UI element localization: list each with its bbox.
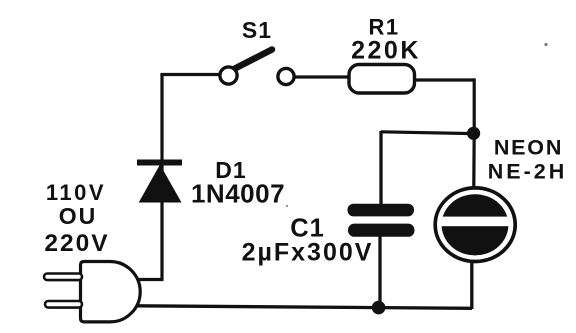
wire: top horizontal to switch S1 left contact: [160, 73, 220, 76]
wire: right vertical from resistor corner down to neon top: [472, 78, 476, 187]
svg-text:2µFx300V: 2µFx300V: [242, 239, 374, 267]
wire: switch right contact to resistor R1: [294, 75, 350, 78]
svg-text:NEON: NEON: [494, 136, 563, 160]
svg-text:1N4007: 1N4007: [191, 179, 285, 209]
wire: capacitor C1 top lead: [379, 131, 382, 206]
wire: bottom horizontal from plug to neon lead: [136, 306, 472, 309]
neon lamp NE-2H outer envelope: [435, 188, 515, 262]
neon lamp electrodes (filled with gap): [436, 194, 516, 255]
diode D1 cathode bar: [137, 160, 182, 166]
svg-text:NE-2H: NE-2H: [488, 160, 568, 184]
wire: capacitor C1 bottom lead: [378, 235, 381, 308]
svg-text:OU: OU: [59, 203, 98, 229]
svg-text:S1: S1: [242, 17, 272, 43]
capacitor C1 bottom plate: [348, 224, 415, 237]
switch S1 lever: [232, 50, 272, 71]
switch S1 left contact: [220, 67, 237, 84]
plug top prong: [44, 274, 82, 281]
capacitor C1 top plate: [348, 204, 415, 217]
svg-text:220K: 220K: [351, 37, 421, 65]
svg-text:110V: 110V: [46, 180, 106, 205]
node: junction dot at resistor/capacitor/neon: [467, 127, 480, 140]
svg-text:220V: 220V: [44, 230, 109, 257]
wire: mid horizontal from capacitor to junction: [381, 132, 474, 134]
node: junction dot at capacitor bottom on bottom wire: [372, 301, 386, 315]
diode D1 triangle (anode, pointing up): [139, 165, 182, 203]
wire: resistor R1 to right vertical: [414, 78, 474, 81]
wire: plug upper terminal to left vertical: [137, 278, 164, 281]
wire: left vertical from plug up through diode to top: [160, 75, 163, 280]
wire: neon lamp bottom lead: [470, 261, 473, 310]
plug bottom prong: [45, 301, 82, 308]
resistor R1 body: [349, 65, 415, 94]
switch S1 right contact: [278, 68, 294, 84]
plug body: [81, 262, 141, 322]
